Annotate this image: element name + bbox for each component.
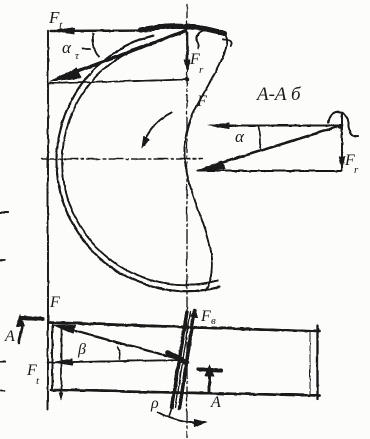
vertical dash-dot centerline: [186, 4, 188, 437]
cutter disc outer arc: [56, 35, 219, 291]
cutter tooth flank line 2: [172, 311, 187, 407]
small tick at disc top right corner: [223, 39, 232, 46]
tooth lower extension: [169, 407, 172, 416]
force F diagonal on rack: [60, 327, 180, 360]
cutter tooth flank line 1: [179, 310, 194, 408]
dark blob at force/tooth crossing: [167, 352, 186, 362]
cutter disc inner arc: [62, 42, 217, 285]
beta angle tick: [117, 347, 120, 359]
resultant force arrow (thick diagonal): [58, 30, 186, 78]
arrowhead of F_t (left): [49, 27, 74, 34]
section A-A: clamp hook at top right corner: [328, 111, 358, 136]
horizontal dash-dot centerline: [41, 158, 202, 160]
scan specks left margin: [0, 211, 7, 213]
cutter disc right wavy edge (S-curve): [184, 31, 227, 290]
section arrow A (right, pointing up): [208, 372, 211, 391]
section A-A: right edge: [341, 113, 343, 170]
section A-A: F_r arrowhead (down): [338, 156, 344, 169]
rack bar left edge: [51, 322, 53, 390]
junction blob at centerline corner: [184, 77, 188, 81]
rack bar bottom edge: [51, 390, 319, 396]
horizontal construction line below alpha: [48, 79, 188, 83]
cutter disc top edge (thick): [140, 26, 224, 33]
section A-A: force F arrow (horizontal, pointing left): [213, 124, 341, 126]
rho angle arc: [157, 412, 201, 423]
F_B arrowhead at tooth tip: [190, 308, 198, 317]
rack pitch line / F_t arrow: [47, 360, 181, 363]
radial force F_r arrow (down along centerline): [186, 32, 188, 64]
section A-A: bottom edge: [197, 170, 341, 172]
rack bar right edge: [316, 325, 318, 399]
rack bar inner left line: [60, 326, 62, 396]
section A-A: resultant diagonal arrow: [206, 125, 341, 167]
junction blob at A-A corner: [337, 123, 342, 128]
rotation direction arrow: [144, 112, 171, 140]
paper noise: [0, 0, 1, 1]
cutter tooth mid line: [175, 311, 190, 407]
alpha_tau angle arc: [92, 33, 98, 56]
left vertical construction line: [47, 30, 49, 409]
section arrow A (left, pointing up): [19, 326, 23, 342]
small hook mark near disc top: [196, 30, 203, 48]
rack bar top edge: [49, 322, 319, 331]
alpha_tau leader dash: [82, 48, 90, 50]
rack bar inner right line: [309, 331, 311, 394]
section A-A: alpha angle tick: [258, 126, 260, 148]
top tangent line (F_t force line): [50, 29, 150, 32]
